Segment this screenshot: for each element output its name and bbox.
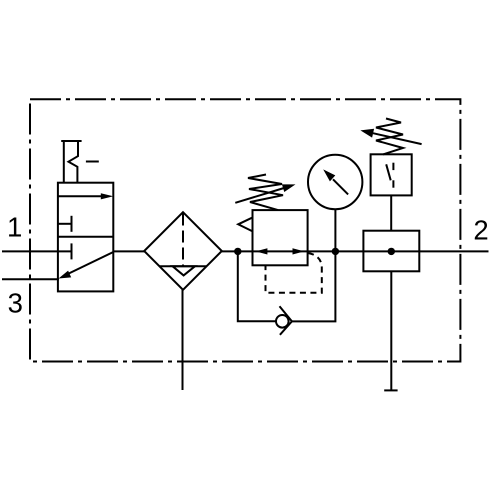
valve V1 blocked port top — [58, 216, 72, 232]
node junction 1 — [234, 248, 241, 255]
valve V1 exhaust path arrow — [59, 252, 114, 279]
filter F1 drain line — [182, 290, 184, 390]
valve V1 blocked port bottom — [71, 243, 73, 259]
valve V1 position divider — [58, 236, 113, 238]
wire valve to filter — [113, 250, 145, 252]
exhaust bar — [384, 389, 397, 391]
enclosure dash-dot border — [30, 99, 460, 361]
manifold block body — [363, 231, 419, 272]
valve V1 flow arrow — [58, 193, 113, 199]
svg-text:3: 3 — [8, 288, 23, 319]
pressure switch PS1 stem — [390, 195, 392, 230]
regulator R1 pilot dashed line — [266, 253, 322, 293]
node junction 2 — [332, 248, 339, 255]
pressure switch PS1 contact — [386, 163, 393, 188]
pressure switch PS1 body — [371, 154, 412, 195]
gauge G1 dial — [308, 155, 362, 209]
bypass wire left — [238, 251, 276, 321]
filter F1 center dashed line — [182, 214, 184, 267]
bypass wire right — [292, 251, 336, 321]
pressure switch PS1 adjustment arrow — [360, 129, 421, 144]
regulator R1 body — [253, 210, 308, 265]
regulator R1 spring — [248, 175, 283, 211]
valve V1 manual actuator — [61, 141, 99, 183]
filter F1 body — [144, 212, 222, 290]
filter F1 separator — [159, 266, 206, 275]
check valve CV1 — [276, 306, 292, 335]
port 3 line — [2, 278, 59, 280]
regulator R1 adjustment arrow — [235, 184, 295, 202]
valve V1 body — [58, 183, 113, 292]
svg-text:2: 2 — [473, 214, 488, 245]
main flow line — [222, 250, 489, 252]
port 1 line — [2, 250, 72, 252]
regulator R1 relief chevron — [238, 218, 252, 231]
node junction 3 — [388, 248, 395, 255]
exhaust line — [390, 271, 392, 390]
pressure switch PS1 spring — [376, 119, 403, 155]
gauge G1 needle — [323, 169, 348, 194]
gauge G1 stem — [334, 210, 336, 252]
svg-text:1: 1 — [7, 212, 22, 243]
regulator R1 flow arrows — [256, 248, 305, 254]
